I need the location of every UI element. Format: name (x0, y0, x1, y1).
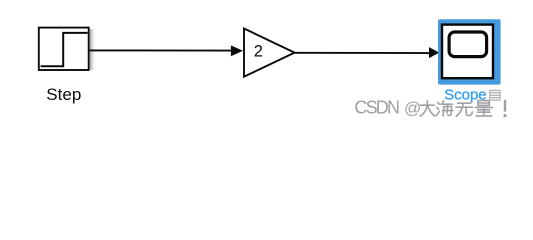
wire W1 (Step to Gain) (90, 49, 232, 51)
svg-text:CSDN: CSDN (354, 97, 400, 117)
watermark small striped badge (490, 90, 500, 100)
wire W2 (Gain to Scope) (295, 52, 430, 54)
arrowhead A1 (231, 45, 243, 56)
step block U1 body (39, 28, 89, 70)
svg-text:2: 2 (254, 42, 263, 60)
svg-text:Step: Step (46, 85, 81, 104)
watermark hanzi DA (420, 101, 435, 116)
arrowhead A2 (429, 47, 439, 58)
svg-text:@: @ (404, 98, 421, 117)
watermark fullwidth exclamation (503, 100, 506, 117)
step block U1 shadow (90, 29, 96, 70)
step waveform icon (41, 33, 88, 66)
scope selection frame (blue) (438, 19, 501, 84)
gain block U2 triangle (244, 29, 295, 77)
scope screen icon (449, 32, 487, 57)
scope block U3 body (442, 25, 493, 79)
watermark hanzi WU (456, 103, 473, 116)
watermark hanzi LIANG (475, 101, 492, 116)
watermark hanzi HAI (437, 101, 453, 116)
